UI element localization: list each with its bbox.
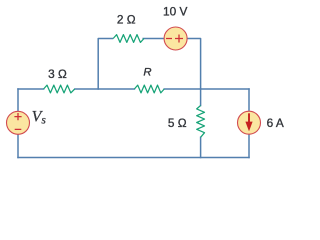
wire: middle wire between 3-ohm and R [75,88,134,90]
current source 6A (circle, down arrow) [238,111,261,134]
resistor 5ohm zigzag (vertical) [197,106,205,138]
resistor R zigzag (middle) [134,85,164,93]
voltage source 10V (circle, minus left plus right) [164,27,187,50]
resistor 3ohm zigzag (middle left) [44,85,75,93]
svg-text:5 Ω: 5 Ω [168,116,187,130]
svg-text:2 Ω: 2 Ω [117,13,136,27]
wire: middle wire left segment to 3-ohm [18,88,44,90]
wire: middle wire from R to right corner [164,88,249,90]
wire: top branch from 2-ohm through 10V source to top-right corner, down to middle wire [143,39,200,90]
wire: top-left corner, vertical x=98.2 down to middle wire and lead to 2-ohm [98,39,112,90]
resistor 2ohm zigzag (top branch) [113,35,144,43]
svg-text:6 A: 6 A [267,116,284,130]
voltage source Vs (circle) [7,111,30,134]
wire: 5-ohm branch top lead [200,89,202,106]
wire: left vertical through Vs source [17,89,19,158]
svg-text:10 V: 10 V [163,4,187,18]
wire: bottom horizontal y=157.5 [18,157,249,159]
wire: 5-ohm branch bottom lead [200,137,202,157]
svg-text:3 Ω: 3 Ω [48,67,67,81]
svg-text:R: R [143,67,151,79]
wire: right vertical through 6A source x=249 [248,89,250,158]
